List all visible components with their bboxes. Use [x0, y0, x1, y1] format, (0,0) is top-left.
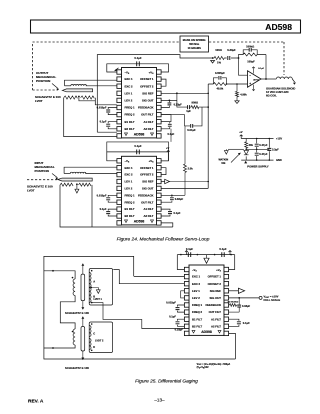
svg-text:0.33µF: 0.33µF: [174, 103, 183, 107]
svg-text:0.1µF: 0.1µF: [258, 68, 264, 70]
svg-text:LEV 1: LEV 1: [125, 180, 133, 184]
svg-text:B2 FILT: B2 FILT: [192, 324, 202, 328]
svg-text:OFFSET 2: OFFSET 2: [140, 173, 154, 177]
svg-text:OFFSET 1: OFFSET 1: [140, 77, 154, 81]
svg-text:A2 FILT: A2 FILT: [143, 214, 153, 218]
svg-text:A1 FILT: A1 FILT: [211, 317, 221, 321]
svg-text:LVDT: LVDT: [27, 189, 35, 193]
svg-text:GND: GND: [276, 158, 282, 162]
svg-text:Figure 25. Differential Gaging: Figure 25. Differential Gaging: [135, 379, 198, 385]
svg-text:0.33µF: 0.33µF: [242, 304, 251, 308]
svg-text:FULL SCALE: FULL SCALE: [264, 298, 281, 302]
svg-text:SIG OUT: SIG OUT: [210, 296, 222, 300]
svg-text:SIG REF: SIG REF: [210, 289, 221, 293]
svg-text:EXC 1: EXC 1: [125, 166, 134, 170]
svg-text:POSITION: POSITION: [36, 79, 50, 83]
svg-text:0.01µF: 0.01µF: [187, 128, 196, 132]
svg-text:B1 FILT: B1 FILT: [125, 120, 135, 124]
svg-text:VOUT = (VA–VB)/(VA+VB) • 500µA: VOUT = (VA–VB)/(VA+VB) • 500µA: [197, 363, 231, 366]
svg-text:OFFSET 1: OFFSET 1: [208, 275, 222, 279]
svg-text:+12V: +12V: [276, 137, 282, 141]
svg-text:LVDT: LVDT: [35, 99, 43, 103]
svg-text:500 N/m: 500 N/m: [189, 42, 200, 46]
svg-text:0.1µF: 0.1µF: [186, 247, 193, 251]
svg-text:FEEDBACK: FEEDBACK: [138, 106, 154, 110]
svg-text:POWER SUPPLY: POWER SUPPLY: [247, 164, 269, 168]
svg-text:REV. A: REV. A: [28, 399, 44, 405]
svg-text:10 GRAMS: 10 GRAMS: [188, 46, 202, 50]
svg-text:FEEDBACK: FEEDBACK: [205, 303, 221, 307]
svg-text:0.015µF: 0.015µF: [166, 300, 176, 304]
svg-text:12 VDC 2-INT-12D: 12 VDC 2-INT-12D: [266, 90, 289, 94]
svg-text:909Ω: 909Ω: [192, 101, 199, 105]
svg-text:20k: 20k: [249, 143, 254, 147]
svg-text:100kΩ: 100kΩ: [246, 45, 254, 49]
svg-text:0.47µF: 0.47µF: [259, 152, 268, 156]
svg-text:LEV 1: LEV 1: [192, 289, 200, 293]
svg-text:AD598: AD598: [201, 330, 212, 334]
svg-text:EXC 1: EXC 1: [192, 275, 201, 279]
svg-text:SIG OUT: SIG OUT: [142, 187, 154, 191]
svg-text:LVDT 2: LVDT 2: [95, 339, 104, 342]
svg-text:A1 FILT: A1 FILT: [143, 120, 153, 124]
svg-text:A1 FILT: A1 FILT: [143, 207, 153, 211]
svg-text:MASS ON SPRING: MASS ON SPRING: [183, 38, 206, 42]
svg-text:0.1µF: 0.1µF: [134, 56, 141, 60]
svg-text:SIG OUT: SIG OUT: [142, 99, 154, 103]
svg-text:LVDT 1: LVDT 1: [94, 298, 103, 301]
svg-text:SCHAEVITZ E 100: SCHAEVITZ E 100: [65, 311, 89, 315]
svg-text:B1 FILT: B1 FILT: [125, 207, 135, 211]
svg-text:POSITION: POSITION: [35, 169, 49, 173]
svg-text:10k: 10k: [221, 162, 226, 165]
svg-text:FREQ 1: FREQ 1: [125, 193, 136, 197]
svg-text:R2 90.9kΩ: R2 90.9kΩ: [228, 300, 239, 303]
svg-text:D: D: [93, 345, 95, 349]
svg-text:OFFSET 2: OFFSET 2: [208, 282, 222, 286]
svg-text:0.015µF: 0.015µF: [97, 106, 107, 110]
svg-text:AD598: AD598: [134, 132, 145, 136]
svg-text:LEV 2: LEV 2: [125, 99, 133, 103]
svg-text:0.1µF: 0.1µF: [134, 144, 141, 148]
svg-text:EXC 2: EXC 2: [192, 282, 201, 286]
svg-text:FREQ 2: FREQ 2: [192, 310, 203, 314]
svg-text:FREQ 2: FREQ 2: [125, 200, 136, 204]
svg-text:AD598: AD598: [134, 219, 145, 223]
svg-text:SIG REF: SIG REF: [142, 91, 153, 95]
svg-text:0.1µF: 0.1µF: [100, 120, 107, 124]
svg-text:6Ω COIL: 6Ω COIL: [266, 94, 277, 98]
svg-text:100pF: 100pF: [247, 59, 255, 63]
svg-text:LEV 2: LEV 2: [125, 187, 133, 191]
svg-text:3.3µF: 3.3µF: [272, 147, 279, 151]
svg-text:A2 FILT: A2 FILT: [211, 324, 221, 328]
svg-text:OFFSET 2: OFFSET 2: [140, 84, 154, 88]
svg-text:0.33µF: 0.33µF: [227, 48, 236, 52]
svg-text:SIG REF: SIG REF: [142, 180, 153, 184]
svg-text:AD598: AD598: [265, 22, 292, 32]
svg-text:+V: +V: [166, 146, 170, 150]
svg-text:–13–: –13–: [154, 398, 165, 403]
svg-text:OUT FILT: OUT FILT: [209, 310, 222, 314]
svg-text:0.1µF: 0.1µF: [243, 321, 250, 325]
svg-text:FEEDBACK: FEEDBACK: [138, 193, 154, 197]
svg-text:LEV 2: LEV 2: [192, 296, 200, 300]
svg-text:Figure 24. Mechanical Follower: Figure 24. Mechanical Follower Servo-Loo…: [117, 237, 210, 243]
svg-text:LEV 1: LEV 1: [125, 91, 133, 95]
svg-text:OFFSET 1: OFFSET 1: [140, 166, 154, 170]
svg-text:0.1µF: 0.1µF: [100, 207, 107, 211]
svg-text:0.005µF: 0.005µF: [215, 71, 225, 75]
svg-text:0.015µF: 0.015µF: [97, 193, 107, 197]
svg-text:EXC 1: EXC 1: [125, 77, 134, 81]
svg-text:B1 FILT: B1 FILT: [192, 317, 202, 321]
svg-text:4.99k: 4.99k: [240, 92, 247, 96]
svg-text:1%: 1%: [217, 61, 221, 65]
svg-text:0.47µF: 0.47µF: [259, 143, 268, 147]
svg-text:C: C: [93, 332, 95, 336]
svg-text:0.1µF: 0.1µF: [174, 211, 181, 215]
svg-text:0.33µF: 0.33µF: [175, 197, 184, 201]
svg-text:AD711: AD711: [253, 78, 259, 81]
svg-text:+V: +V: [239, 130, 243, 134]
svg-text:–: –: [249, 73, 251, 77]
svg-text:FREQ 2: FREQ 2: [125, 113, 136, 117]
svg-text:2.0k: 2.0k: [188, 167, 194, 171]
svg-text:B2 FILT: B2 FILT: [125, 127, 135, 131]
svg-text:EXC 2: EXC 2: [125, 84, 134, 88]
svg-text:49.9k: 49.9k: [217, 86, 224, 90]
svg-text:OUT FILT: OUT FILT: [141, 113, 154, 117]
svg-text:SCHAEVITZ E 100: SCHAEVITZ E 100: [65, 366, 89, 370]
svg-text:OUT FILT: OUT FILT: [141, 200, 154, 204]
svg-text:FREQ 1: FREQ 1: [125, 106, 136, 110]
svg-text:FREQ 1: FREQ 1: [192, 303, 203, 307]
svg-text:EXC 2: EXC 2: [125, 173, 134, 177]
svg-text:A2 FILT: A2 FILT: [143, 127, 153, 131]
svg-text:+: +: [249, 82, 251, 86]
svg-text:B2 FILT: B2 FILT: [125, 214, 135, 218]
svg-text:A: A: [93, 279, 95, 283]
svg-text:GUARDIAN SOLENOID: GUARDIAN SOLENOID: [266, 87, 295, 91]
svg-text:100Ω: 100Ω: [215, 48, 222, 52]
svg-text:0.33µF: 0.33µF: [175, 328, 184, 332]
svg-text:1µF: 1µF: [186, 109, 191, 113]
svg-text:0.1µF: 0.1µF: [169, 315, 176, 319]
svg-text:0.1µF: 0.1µF: [219, 247, 226, 251]
